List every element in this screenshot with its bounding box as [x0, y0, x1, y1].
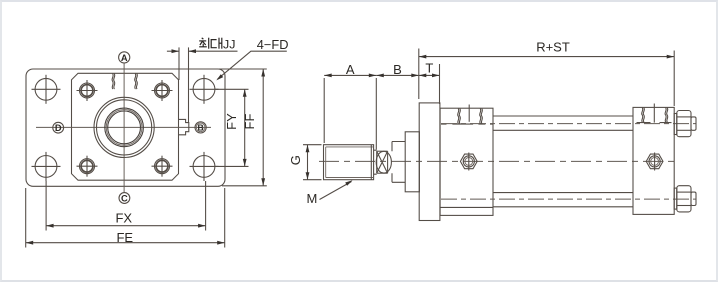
tie rod centerline bottom: [441, 198, 696, 200]
A extension lines: [323, 78, 325, 143]
svg-text:T: T: [425, 61, 433, 76]
rod gland bore ring: [106, 110, 142, 146]
horizontal centerline: [36, 126, 211, 128]
balloon C: [119, 193, 130, 204]
rear top tie-rod nut: [677, 111, 691, 137]
front cushion screw centerline: [468, 105, 470, 122]
rod collar: [392, 142, 405, 183]
tie rod tapped hole bottom-left: [77, 156, 98, 177]
svg-text:G: G: [288, 155, 303, 165]
M leader line with arrow: [320, 182, 352, 200]
flange plate outline FE x FF: [26, 69, 225, 186]
front flange plate (side): [419, 103, 440, 221]
svg-text:B: B: [393, 62, 402, 77]
T extension lines: [418, 49, 420, 100]
balloon A: [119, 52, 130, 63]
front cushion screw: [460, 153, 477, 171]
label 최대 (Korean 'max') drawn strokes: [199, 38, 222, 49]
rear head tie-rod thread stubs: [642, 108, 645, 123]
tie-rod thread stubs behind flange (top center): [112, 74, 115, 90]
svg-text:A: A: [346, 62, 355, 77]
piston rod thread: [324, 145, 374, 180]
FE extension lines: [25, 188, 27, 248]
rear bottom tie-rod nut washer: [674, 188, 677, 209]
balloon B: [195, 122, 206, 133]
front head thread seat lines: [441, 123, 493, 125]
front head block: [440, 108, 493, 215]
FY dimension line: [244, 89, 246, 166]
JJ extension lines: [178, 47, 180, 80]
head counterbore shoulder line: [440, 206, 493, 208]
G extension lines: [303, 144, 322, 146]
rear head block: [633, 107, 674, 214]
wrench flats box with X: [376, 151, 391, 173]
corner mounting hole FD bottom-right: [190, 152, 219, 181]
corner mounting hole FD bottom-left: [32, 152, 61, 181]
svg-text:C: C: [121, 193, 128, 203]
FF extension lines: [219, 68, 267, 70]
svg-text:R+ST: R+ST: [536, 40, 570, 55]
rear top tie-rod stub end: [691, 117, 696, 130]
front head tie-rod thread stubs: [458, 109, 461, 124]
center bore pilot circles: [94, 97, 154, 157]
rear cushion screw: [646, 153, 663, 171]
rear cushion screw centerline: [653, 104, 655, 123]
svg-text:D: D: [55, 123, 62, 133]
JJ dimension line with arrows: [167, 50, 179, 52]
tie rod tapped hole top-right: [152, 80, 173, 101]
gland disc: [405, 132, 419, 192]
svg-text:FF: FF: [242, 114, 257, 130]
rear bottom tie-rod nut: [677, 186, 691, 212]
svg-text:B: B: [197, 122, 203, 132]
corner mounting hole FD top-right: [190, 75, 219, 104]
corner mounting hole FD top-left: [32, 75, 61, 104]
FF dimension line: [262, 69, 264, 186]
tie rod tapped hole bottom-right: [152, 156, 173, 177]
cylinder tube: [493, 116, 633, 207]
tie rod centerline top: [441, 123, 696, 125]
tie rod tapped hole top-left: [77, 80, 98, 101]
A dimension line: [324, 74, 376, 76]
svg-text:JJ: JJ: [223, 38, 235, 52]
T dimension line: [419, 74, 440, 76]
G dimension line: [307, 145, 309, 180]
rear top tie-rod nut washer: [674, 114, 677, 135]
balloon D: [53, 122, 64, 133]
svg-text:FX: FX: [115, 210, 132, 225]
svg-text:4−FD: 4−FD: [257, 37, 289, 52]
4-FD leader line with arrow: [218, 51, 287, 79]
rear head thread seat lines: [637, 122, 672, 124]
rear bottom tie-rod stub end: [691, 192, 696, 205]
FX dimension line: [46, 225, 206, 227]
cylinder head square (chamfered corners): [72, 73, 179, 180]
R+ST dimension line: [419, 56, 674, 58]
svg-text:FY: FY: [224, 113, 239, 130]
svg-text:FE: FE: [116, 230, 133, 245]
svg-text:M: M: [307, 191, 318, 206]
FX extension lines: [45, 181, 47, 231]
R+ST extension line right: [673, 51, 675, 107]
svg-text:A: A: [121, 53, 128, 63]
main centerline: [319, 160, 674, 162]
FY extension lines: [215, 88, 249, 90]
vertical centerline: [123, 63, 125, 192]
B dimension line: [376, 74, 419, 76]
rod neck step: [374, 150, 377, 174]
FE dimension line: [26, 242, 225, 244]
cushion boss on right edge of head square: [179, 119, 189, 134]
